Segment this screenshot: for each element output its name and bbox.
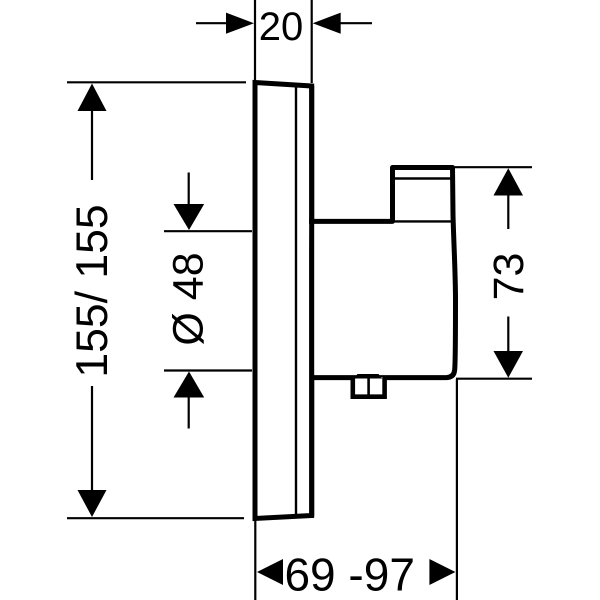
- dim 20: left leader line: [196, 22, 230, 24]
- dim diameter 48: lower arrow: [174, 372, 205, 398]
- knob bottom thin line: [394, 220, 451, 222]
- dim 155/155: top extension line: [67, 81, 246, 83]
- stop screw chamfer top: [354, 374, 383, 379]
- dim 73: top arrow: [494, 168, 524, 195]
- svg-text:69 -97: 69 -97: [284, 549, 414, 600]
- dim 69-97: left arrow: [257, 559, 283, 585]
- svg-text:73: 73: [485, 253, 533, 301]
- dim 155/155: bottom arrow: [78, 490, 107, 517]
- dim 155/155: lower stem: [91, 386, 93, 491]
- plate right edge re-stroke: [309, 86, 314, 516]
- stop screw divider: [367, 377, 370, 395]
- stop screw protrusion: [353, 377, 385, 397]
- dim diameter 48: lower line: [164, 369, 252, 371]
- dim 155/155: upper stem: [91, 111, 93, 180]
- dim diameter 48: upper line: [164, 230, 252, 232]
- dim 73: upper stem: [507, 196, 509, 230]
- dim 73: lower stem: [507, 317, 509, 352]
- dim 20: right leader line: [338, 22, 372, 24]
- dim 20: left extension line: [254, 0, 256, 80]
- dim diameter 48: upper arrow: [174, 204, 205, 230]
- dim diameter 48: lower stem: [188, 398, 190, 429]
- dim diameter 48: upper stem: [188, 173, 190, 205]
- dim 73: top extension line: [453, 166, 533, 168]
- svg-text:155/ 155: 155/ 155: [68, 204, 117, 377]
- escutcheon plate (side view): [255, 83, 312, 519]
- svg-text:Ø 48: Ø 48: [165, 252, 213, 345]
- dim 73: bottom extension line: [456, 378, 532, 380]
- dim 20: right arrow: [313, 13, 341, 34]
- valve body outline: [309, 168, 456, 378]
- dim 20: right extension line: [311, 0, 313, 83]
- dim 69-97: right arrow: [429, 559, 455, 585]
- plate front edge thin line: [295, 85, 297, 517]
- dim 69-97: right extension line: [456, 379, 458, 600]
- dim 20: left arrow: [226, 13, 254, 34]
- dim 73: bottom arrow: [494, 351, 524, 378]
- dim 155/155: bottom extension line: [67, 517, 244, 519]
- svg-text:20: 20: [259, 5, 304, 49]
- dim 155/155: top arrow: [78, 84, 107, 112]
- dim 69-97: left extension line: [254, 520, 256, 600]
- knob inner thin line: [394, 177, 453, 179]
